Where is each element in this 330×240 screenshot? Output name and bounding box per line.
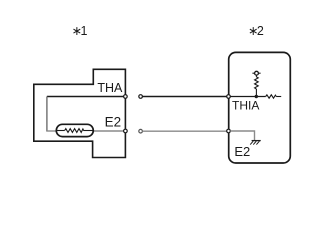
wire resistor stub xyxy=(276,96,281,98)
pull-up resistor (vertical zigzag) xyxy=(255,77,259,89)
wire thermistor right to E2 terminal xyxy=(93,130,124,132)
svg-text:THA: THA xyxy=(97,81,123,95)
terminal THA on sensor edge xyxy=(124,95,128,99)
horizontal resistor (to other circuit) xyxy=(266,95,277,98)
svg-text:∗2: ∗2 xyxy=(248,24,264,38)
wire THA internal horizontal xyxy=(47,96,124,98)
terminal E2 on sensor edge xyxy=(124,129,128,133)
ECM box (rounded) xyxy=(229,52,291,163)
thermistor zigzag resistor xyxy=(65,129,84,133)
wire node to pull-up resistor xyxy=(255,89,257,97)
power supply symbol xyxy=(252,71,260,75)
wire E2 harness xyxy=(142,130,226,132)
wire E2 inside box xyxy=(230,131,254,140)
svg-text:∗1: ∗1 xyxy=(72,24,88,38)
wire internal vertical xyxy=(46,97,48,132)
svg-text:THIA: THIA xyxy=(232,99,259,113)
junction node xyxy=(255,95,258,98)
terminal THIA on box edge xyxy=(227,95,231,99)
wire THIA inside box xyxy=(230,96,265,98)
wire to thermistor left xyxy=(46,130,57,132)
connector circle E2 harness xyxy=(139,129,143,133)
sensor outline (stepped connector body) xyxy=(34,69,126,157)
thermistor lead right xyxy=(83,130,93,132)
ground symbol xyxy=(250,141,261,145)
terminal E2 on box edge xyxy=(227,129,231,133)
thermistor body (stadium) xyxy=(56,124,93,136)
wire resistor to supply xyxy=(255,75,257,77)
thermistor lead left xyxy=(56,130,64,132)
svg-text:E2: E2 xyxy=(105,115,122,130)
wire THA harness xyxy=(142,96,226,98)
svg-text:E2: E2 xyxy=(234,144,250,159)
connector circle THA harness xyxy=(139,95,143,99)
